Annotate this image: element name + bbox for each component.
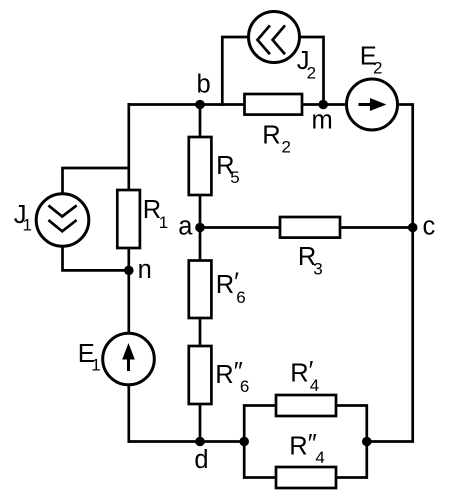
svg-text:d: d (194, 446, 208, 474)
svg-text:b: b (197, 71, 211, 99)
resistor R''6 (189, 346, 212, 404)
wire: J2 branch left vertical and top lead (222, 37, 249, 106)
svg-text:4: 4 (315, 448, 324, 467)
wire: J2 right lead down to node m (300, 37, 324, 106)
svg-text:a: a (178, 213, 193, 241)
junction dot: R4 pair left (239, 437, 249, 447)
svg-text:3: 3 (313, 260, 322, 279)
svg-text:R: R (216, 271, 234, 299)
wire: R'6 bottom to R''6 top (199, 317, 202, 347)
wire: R4 upper branch right lead and riser (335, 406, 367, 444)
wire: R4 lower branch right lead and riser (335, 440, 367, 478)
svg-text:2: 2 (282, 138, 291, 157)
wire: R''6 bottom to node d (199, 403, 202, 443)
junction dot: R4 pair right (362, 437, 372, 447)
wire: right rail from node c down then left to R4 pair (366, 226, 413, 442)
resistor R1 (117, 190, 140, 248)
resistor R3 (280, 217, 340, 238)
node m junction dot (318, 100, 328, 110)
wire: R4 upper branch left riser and lead (244, 406, 277, 444)
svg-text:4: 4 (310, 376, 319, 395)
svg-text:6: 6 (236, 288, 245, 307)
wire: R4 lower branch left riser and lead (244, 440, 277, 478)
svg-text:c: c (423, 213, 436, 241)
wire: J1 bottom lead down and right to node n (63, 245, 129, 270)
resistor R'6 (189, 261, 212, 319)
svg-text:1: 1 (159, 213, 168, 232)
node c junction dot (408, 223, 418, 233)
wire: left rail from top bus down to R1 (127, 103, 130, 191)
svg-text:1: 1 (23, 216, 32, 235)
svg-text:m: m (312, 107, 333, 135)
svg-text:2: 2 (307, 64, 316, 83)
wire: node a to R3 left (200, 226, 281, 229)
resistor R5 (189, 137, 212, 195)
svg-text:1: 1 (91, 355, 100, 374)
svg-text:n: n (138, 256, 152, 284)
node b junction dot (195, 100, 205, 110)
wire: bottom bus from E1 through node d to R4 pair (128, 440, 246, 443)
voltage source E1 (103, 333, 155, 385)
svg-text:R: R (290, 360, 308, 388)
voltage source E2 (347, 79, 398, 130)
svg-text:2: 2 (373, 59, 382, 78)
wire: E2 right then down to node c (397, 105, 413, 230)
svg-text:5: 5 (230, 168, 239, 187)
wire: R1 bottom to node n to E1 top (127, 247, 130, 334)
current source J1 (36, 194, 89, 247)
node a junction dot (195, 223, 205, 233)
wire: top bus from left rail to R2 left (128, 103, 247, 106)
wire: R2 right to node m to E2 left (300, 103, 347, 106)
node d junction dot (195, 437, 205, 447)
resistor R''4 (276, 467, 336, 488)
wire: J1 branch top lead from left rail (63, 168, 129, 195)
wire: R5 bottom through node a to R'6 (199, 194, 202, 262)
resistor R2 (245, 94, 303, 115)
svg-text:R: R (215, 361, 233, 389)
node n junction dot (124, 266, 134, 276)
current source J2 (249, 12, 300, 63)
resistor R'4 (276, 395, 336, 416)
svg-text:6: 6 (240, 377, 249, 396)
svg-text:R: R (262, 121, 280, 149)
wire: R3 right to node c (339, 226, 414, 229)
svg-text:R: R (289, 433, 307, 461)
wire: E1 bottom to bottom bus (127, 384, 130, 443)
wire: node b down to R5 (199, 103, 202, 138)
